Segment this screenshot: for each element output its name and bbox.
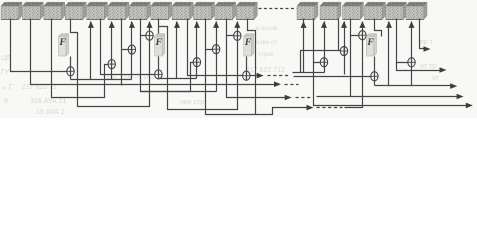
wire riser to XOR X11 left input: [301, 51, 341, 73]
svg-text:ния стр: ния стр: [180, 99, 204, 106]
xor X1: [67, 67, 74, 76]
arrowhead into cell16: [359, 21, 365, 28]
wire feedback riser into cell5: [90, 22, 92, 80]
register cell 16: [365, 2, 386, 19]
arrowhead into cell11: [213, 21, 219, 28]
wire branch around F2 deep bus rising through XOR X8 into cell12: [159, 22, 238, 110]
xor X11: [340, 46, 347, 55]
svg-text:F: F: [59, 38, 67, 48]
register cell 3: [44, 2, 65, 19]
arrowhead output 5: [466, 103, 473, 109]
wire cell17 output to right edge: [397, 63, 441, 71]
register cell 10: [194, 2, 215, 19]
wire cell13 output deep bus to right edge: [314, 63, 467, 106]
register cell 14: [320, 2, 341, 19]
xor X6: [193, 58, 200, 67]
svg-text:F: F: [366, 38, 374, 48]
wire cell7 output tap to XOR X4: [141, 19, 147, 36]
function box F2: [155, 34, 165, 56]
register cell 12: [236, 2, 257, 19]
wire cell12 output jog past F3 descending to deep bus: [248, 19, 256, 115]
wire bus under group 2: [141, 91, 217, 93]
svg-text:новн ст: новн ст: [256, 40, 277, 46]
function box F4: [366, 34, 376, 56]
arrowhead into cell12: [234, 21, 240, 28]
arrowhead bus continuation 4: [307, 105, 314, 111]
wire feedback riser into cell9: [176, 22, 178, 79]
svg-text:ГУ: ГУ: [1, 69, 10, 76]
wire feedback column into cell13: [303, 19, 305, 73]
wire feedback column through XOR X11 into cell15: [344, 22, 346, 75]
xor X2: [108, 60, 115, 69]
xor X3: [128, 45, 135, 54]
wire cell5 output to XOR X5 left input: [101, 19, 155, 75]
svg-text:ЦЕ: ЦЕ: [1, 55, 11, 62]
wire cell10 output tap to XOR X7: [206, 19, 213, 50]
arrowhead output 2: [440, 67, 447, 73]
arrowhead output 3: [450, 83, 457, 89]
svg-text:« Г: « Г: [2, 83, 14, 92]
arrowhead output 1: [424, 46, 431, 52]
svg-text:строк: строк: [258, 52, 273, 58]
dashed bus continuation 4: [317, 107, 343, 109]
xor X13: [371, 72, 378, 81]
wire F2 output down through XOR X5: [158, 57, 160, 79]
wire X1 output bus: [71, 79, 132, 81]
wire cell3 output deep bus to XOR X2 left input: [52, 19, 109, 98]
wire cell11 output tap to XOR X8: [227, 19, 234, 36]
register cell 8: [151, 2, 172, 19]
register cell 2: [22, 2, 43, 19]
xor X9: [243, 71, 250, 80]
arrowhead into cell8: [147, 21, 153, 28]
register cell 17: [386, 2, 407, 19]
arrowhead bus continuation 2: [274, 81, 281, 87]
wire feedback column through XOR X6 into cell10: [196, 22, 198, 79]
svg-text:ит пр: ит пр: [420, 63, 437, 70]
register cell 7: [129, 2, 150, 19]
scan bleed-through artifacts: [1, 26, 440, 116]
xor X14: [408, 58, 415, 67]
xor X8: [234, 31, 241, 40]
register cell 1: [1, 2, 22, 19]
wire cell1 output to XOR X1 left input: [11, 19, 67, 72]
xor X12: [359, 31, 366, 40]
wire feedback column through XOR X10 into cell14: [324, 22, 326, 73]
wire cell2 output bus with continuation arrow: [31, 19, 275, 85]
svg-text:в основ: в основ: [256, 26, 277, 32]
register cell 18: [406, 2, 427, 19]
wire X9 output with continuation arrow: [250, 75, 258, 77]
register cell 15: [343, 2, 364, 19]
wire X13 output bus to right edge: [375, 85, 451, 87]
arrowhead into cell18: [409, 21, 415, 28]
register cell 11: [215, 2, 236, 19]
wire cell15 output tap to XOR X12: [351, 19, 359, 36]
wire cell18 final output: [420, 19, 425, 49]
xor X7: [212, 45, 219, 54]
svg-text:пр т: пр т: [420, 39, 434, 46]
wire F1 output down through XOR X1: [70, 57, 72, 80]
xor X5: [155, 70, 162, 79]
xor X10: [320, 58, 327, 67]
register cell 9: [172, 2, 193, 19]
wire bus resume to XOR X13 left input: [294, 76, 371, 78]
wire feedback column through XOR X7 into cell11: [216, 22, 218, 92]
arrowhead into cell6: [109, 21, 115, 28]
arrowhead into cell15: [341, 21, 347, 28]
dashed continuation of register (top row): [259, 8, 297, 10]
dashed bus continuation 2: [285, 84, 299, 86]
wire cell4 output jog into F1 and deep bus rising through XOR X4 into cell8: [71, 19, 150, 107]
function box F1: [59, 34, 69, 56]
wire bus resume across group 3 to right edge: [317, 96, 458, 98]
dashed bus continuation 3: [296, 97, 313, 99]
dashed bus continuation 1: [268, 75, 291, 77]
wire feedback column through XOR X14 into cell18: [411, 22, 413, 86]
arrowhead into cell10: [194, 21, 200, 28]
function box F3: [244, 34, 254, 56]
svg-text:F: F: [244, 38, 252, 48]
svg-text:F: F: [155, 38, 163, 48]
wire cell14 output joining X11 tap: [338, 19, 340, 51]
wire cell9 output to XOR X9 left input: [188, 19, 243, 76]
arrowhead into cell14: [321, 21, 327, 28]
xor X4: [146, 31, 153, 40]
wire X5 output bus: [159, 78, 197, 80]
svg-text:8: 8: [4, 98, 8, 105]
svg-text:15 АУА 2: 15 АУА 2: [36, 109, 65, 116]
arrowhead into cell9: [174, 21, 180, 28]
register cell 4: [65, 2, 86, 19]
wire cell15 output descends to bus: [350, 36, 352, 97]
wire cell17 output tap to XOR X14: [397, 19, 408, 63]
arrowhead output 4: [457, 94, 464, 100]
svg-text:317 622 712: 317 622 712: [246, 67, 285, 74]
wire cell6 output continues down: [121, 50, 123, 86]
wire feedback riser into cell17: [388, 22, 390, 86]
arrowhead bus continuation 3: [285, 95, 292, 101]
wire feedback column through XOR X3 into cell7: [131, 22, 133, 80]
wire F4 output down through XOR X13: [374, 57, 376, 86]
wire cell10 output deep bus with continuation arrow: [206, 50, 308, 115]
wire cell8 output into F2: [158, 19, 160, 37]
wire cell7 output deep bus to XOR X6 left input: [141, 36, 194, 92]
register cell 13: [297, 2, 318, 19]
wire bus resume rising through XOR X12 into cell17: [345, 22, 363, 108]
arrowhead into cell17: [386, 21, 392, 28]
svg-text:316 АУА 21: 316 АУА 21: [30, 98, 66, 105]
arrowhead into cell5: [88, 21, 94, 28]
wire cell11 output deep bus with continuation arrow: [227, 36, 286, 98]
register cell 5: [87, 2, 108, 19]
wire feedback column through XOR X2 into cell6: [111, 22, 113, 80]
arrowhead into cell13: [301, 21, 307, 28]
arrowhead bus continuation 1: [257, 73, 264, 79]
wire F3 output down through XOR X9: [246, 57, 248, 81]
svg-text:от: от: [432, 75, 440, 82]
wire cell16 output jog into F4: [375, 19, 382, 37]
register cell 6: [108, 2, 129, 19]
wire bus resume feeding cell13 cell14 columns: [293, 72, 325, 74]
arrowhead into cell7: [129, 21, 135, 28]
wire cell13 output tap to XOR X10: [314, 19, 321, 63]
wire cell6 output tap to XOR X3: [122, 19, 129, 50]
